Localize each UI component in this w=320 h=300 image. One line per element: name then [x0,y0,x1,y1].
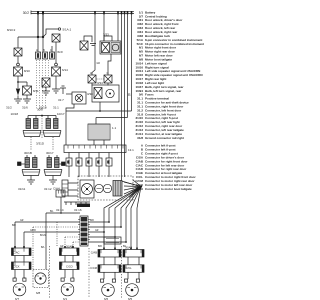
switch C [104,75,112,83]
bus connection nubs [37,11,132,14]
svg-text:B/R: B/R [98,246,102,248]
door lock unit left front coils [28,116,36,119]
svg-text:5/1A:1: 5/1A:1 [63,28,72,32]
svg-text:30/8: 30/8 [37,108,43,112]
ground 31/6 [23,99,31,103]
zone boundary dashed 3 [121,246,123,298]
svg-text:BL/R: BL/R [58,52,63,54]
svg-text:C/CL: C/CL [126,266,133,270]
node bundle point [140,185,142,187]
node junction J2 [42,36,44,38]
wire row y237 dashed [65,236,80,238]
svg-text:GR: GR [95,230,99,232]
motor 6/5 [125,279,128,282]
svg-text:31/6: 31/6 [22,106,28,110]
wires col C pins [65,256,73,279]
svg-text:B/R: B/R [12,225,16,227]
svg-text:31:12: 31:12 [44,187,52,191]
wire from 3/33 [108,54,111,75]
wire bundle fanning down [104,187,141,250]
svg-text:GR/R: GR/R [30,230,36,232]
wire 3/38 to rail [66,104,74,111]
wire bus drop B [42,14,44,38]
svg-text:B: B [43,48,45,52]
svg-text:C: C [107,71,109,75]
svg-text:31/2: 31/2 [6,106,12,110]
relay pins [94,140,104,145]
lock unit 3/33 [104,36,112,41]
connector C/A tall [80,216,88,246]
wire from 5/1A down [55,42,57,63]
ground 31:7 [60,86,66,94]
node junction J1 [37,36,39,38]
wire colour labels [12,211,127,248]
half ground tick [90,44,96,46]
wires to 3/34 [92,83,108,86]
fuse row pins down [69,166,125,177]
svg-text:31:7: 31:7 [58,98,64,102]
wire col C feed 1 [64,237,66,248]
ground 31/2 [14,99,22,103]
mechanical link [97,78,104,80]
wire col B solid feed [45,213,47,270]
wire feed left [18,36,43,38]
svg-text:GR: GR [97,63,101,65]
ground 31:1 [52,89,60,93]
wire row y227 dashed [33,226,80,228]
wire rail drop to relay [66,111,96,145]
svg-text:C/CO: C/CO [66,265,73,269]
driver door unit dashed enclosure [78,176,133,200]
zone boundary dashed 2 [88,248,90,298]
connector row A B C [38,37,52,52]
wire bus drop F [124,14,126,173]
svg-text:C/CM: C/CM [90,266,98,270]
svg-text:13.1: 13.1 [128,148,134,152]
wire row y222 left [15,221,80,223]
junction dots rows [108,221,110,223]
svg-text:8/10: 8/10 [24,69,30,73]
svg-text:A: A [36,48,38,52]
zone boundary dashed 1 [49,246,51,298]
connector box end caps [12,248,145,272]
switch A [88,75,96,83]
wire col A feed 1 [14,222,16,248]
svg-text:Connector to motor boot tailga: Connector to motor boot tailgate [145,187,192,191]
connector X small [80,41,88,50]
wire stub dashed [56,222,58,246]
svg-text:10/17: 10/17 [57,112,65,116]
wire col A feed 2 [23,232,25,248]
wire row y242 dashed [73,241,80,243]
motor 6/1 [61,278,64,281]
svg-text:C/CO: C/CO [136,187,144,191]
wire bus drop D [103,14,105,42]
wire to terminal 5/1A:1 [43,29,58,37]
wire [17,56,19,63]
svg-text:10/18: 10/18 [10,112,18,116]
terminal left rear [18,162,22,166]
wire rail y117 [96,117,128,119]
right cluster bracket 1 [84,36,92,42]
switch 30/8 [42,78,50,87]
ground left rear [27,176,35,185]
connector strip 5/1C [64,145,126,153]
pin marks above boxes [14,246,138,250]
svg-text:30/1B: 30/1B [24,151,32,155]
svg-text:8/10:2: 8/10:2 [7,28,16,32]
svg-text:6/8: 6/8 [36,291,41,295]
wires col E pins [128,257,139,279]
wire bus drop E [122,14,142,187]
wire bus drop A [37,14,39,38]
bus bar 30-feed [31,11,134,15]
svg-text:31/8: 31/8 [137,136,143,140]
switch 6/10 [17,63,20,66]
wire 3/34 to rail [99,102,101,111]
svg-text:C/AC: C/AC [13,251,19,255]
switch drum circles [95,184,103,192]
wire bus drop H [131,14,133,112]
wires col D pins [104,257,115,279]
motor block driver door [80,180,94,198]
wires col A pins [15,256,24,279]
door lock unit left rear [27,155,35,158]
ground 31/10 [42,91,50,95]
wire fan to bundle point [124,180,141,198]
svg-text:3/34: 3/34 [97,81,103,85]
svg-text:C: C [50,48,52,52]
inline fuse box [104,237,121,244]
wire row y213 left [46,212,80,214]
switch 6/14 [55,63,58,66]
wire bus drop C [92,14,95,76]
wire rows right of connector [88,222,126,242]
wire [55,76,57,89]
wire door units feed [28,115,56,117]
svg-text:6/14: 6/14 [62,68,68,72]
dashed drops to rear units [31,137,53,150]
svg-text:B/GN: B/GN [40,235,46,237]
legend text block [128,10,205,190]
fuse row [69,153,109,159]
dashed wire between units [41,116,43,138]
svg-text:30/2: 30/2 [23,11,29,15]
svg-text:C/AB: C/AB [91,251,97,255]
svg-text:C/CX: C/CX [13,265,20,269]
svg-text:31/11: 31/11 [18,187,26,191]
switch 8/11 [23,86,32,95]
wire col B dashed feed [32,227,34,270]
lock unit 3/38 [66,93,72,95]
connector inline left [14,48,22,56]
door lock unit right rear [49,155,57,158]
svg-text:8/11: 8/11 [33,89,39,93]
wire left branch down [17,37,19,48]
wire split [18,76,27,86]
wire col C feed 2 [72,242,74,248]
motor 6/8 dashed enclosure [33,270,49,288]
connector inline 5/1A [43,36,52,38]
svg-text:3/31D: 3/31D [36,142,45,146]
wire bus drop 3/33 [117,14,119,42]
svg-text:3/38: 3/38 [87,92,93,96]
svg-text:Ground connector rail right: Ground connector rail right [145,136,184,140]
svg-text:B/L: B/L [41,246,45,249]
svg-text:31:16: 31:16 [74,208,82,212]
motor 6/6 [101,279,104,282]
wire bus drop G [127,14,129,118]
ground comb 31:14 [64,202,90,205]
svg-text:11: 11 [128,93,132,97]
ground right rear [49,176,57,185]
svg-text:31:14: 31:14 [56,208,64,212]
motor 6/7 [13,278,16,281]
svg-text:30/17: 30/17 [46,151,54,155]
contact block [113,181,122,197]
cable bundle dashed [37,60,49,109]
wire row y232 left [24,231,80,233]
svg-text:31:1: 31:1 [53,106,59,110]
door lock unit right front coils [48,116,56,119]
svg-text:GR: GR [20,220,24,222]
svg-text:A: A [90,71,92,75]
terminal right rear [62,162,66,166]
wire rail y111 [66,110,132,112]
svg-text:B/R: B/R [90,220,94,222]
lock unit 3/34 [92,85,119,102]
relay 2/7 [88,124,110,140]
connector 3-pin left [62,180,68,196]
diode arrow left leg [17,82,19,88]
svg-text:1.1: 1.1 [112,126,117,130]
